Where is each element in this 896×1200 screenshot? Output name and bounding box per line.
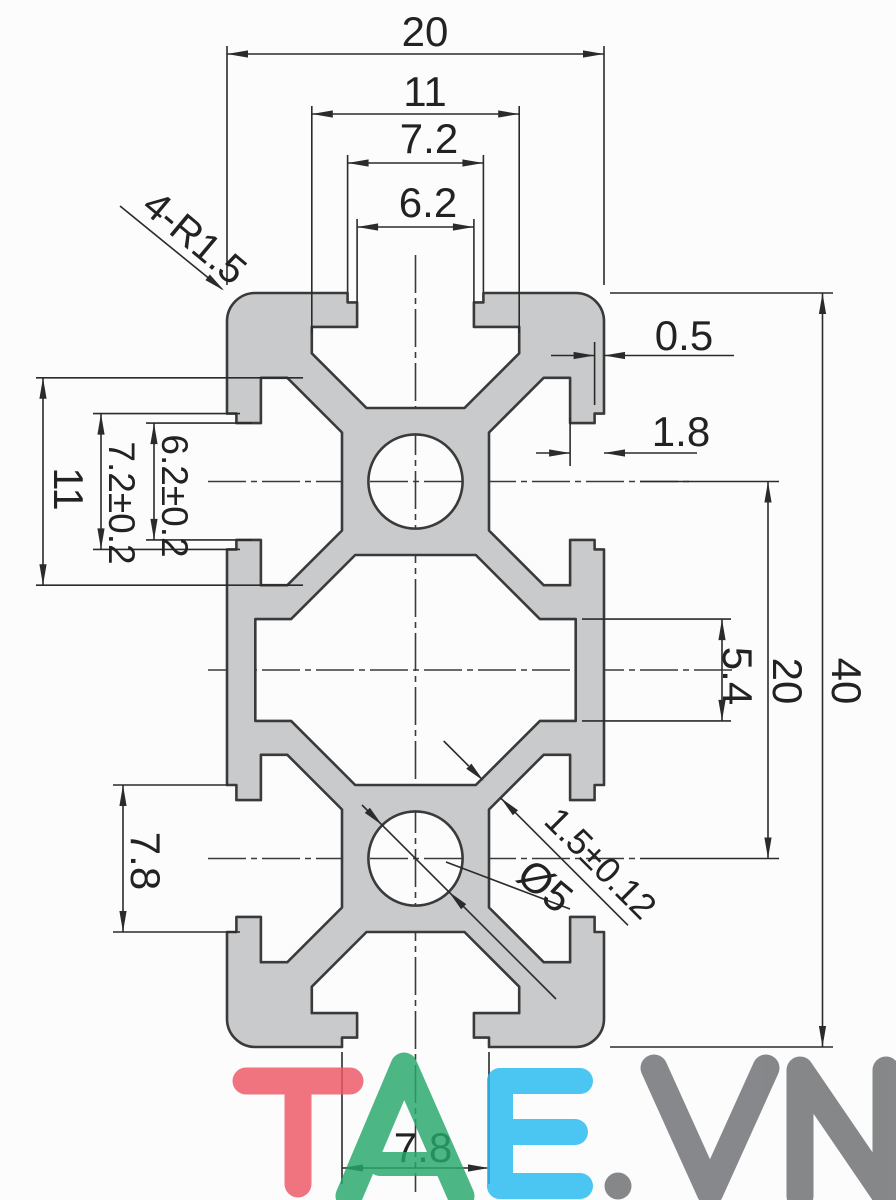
dim 40 extension lines	[610, 293, 833, 1047]
leader 1.5±0.12 web thickness	[444, 741, 628, 925]
leader Ø5 center hole	[362, 805, 570, 999]
dim 7.8 left extension lines	[113, 785, 240, 932]
dim label 7.8 bottom	[394, 1124, 452, 1171]
svg-text:1.8: 1.8	[652, 408, 710, 455]
dim label 7.2±0.2 left	[101, 441, 142, 564]
dim label 7.2 top	[400, 115, 458, 162]
dim 7.8 left dimension line	[119, 785, 126, 932]
dim label 40	[823, 658, 870, 705]
centerline bottom cell horizontal	[208, 858, 640, 860]
svg-text:7.2: 7.2	[400, 115, 458, 162]
dim label 1.5&#177;0.12	[537, 799, 665, 927]
svg-text:7.2±0.2: 7.2±0.2	[101, 441, 142, 564]
leader 4-R1.5 corner radius	[120, 206, 224, 291]
dim 7.2±0.2 left extension lines	[93, 414, 240, 550]
centerline middle horizontal	[208, 669, 733, 671]
dim 40 dimension line	[819, 293, 826, 1047]
dim label 5.4	[714, 647, 761, 705]
dim 7.2 top dimension line	[348, 159, 484, 166]
dim label Ø5	[509, 850, 582, 922]
dim 20 top extension lines	[227, 46, 604, 285]
dim 11 top extension lines	[312, 106, 519, 333]
dim 7.8 bottom dimension line	[342, 1164, 489, 1171]
dim 1.8 dimension line	[536, 449, 697, 456]
svg-text:0.5: 0.5	[655, 312, 713, 359]
dim 20 right dimension line	[764, 482, 771, 859]
dim label 6.2 top	[399, 179, 457, 226]
dim label 11 top	[403, 68, 447, 115]
dim 5.4 dimension line	[718, 619, 725, 721]
dim 7.8 bottom extension lines	[342, 1052, 489, 1184]
dim 11 left extension lines	[36, 378, 303, 585]
dim 5.4 extension lines	[582, 619, 731, 721]
dim label 4-R1.5	[134, 183, 254, 294]
dim label 7.8 left	[122, 832, 169, 890]
svg-text:6.2±0.2: 6.2±0.2	[154, 434, 195, 557]
dim label 1.8	[652, 408, 710, 455]
aluminium profile cross-section body	[227, 293, 604, 1047]
dim label 20 top	[402, 8, 449, 55]
centerline vertical profile axis	[415, 255, 417, 1192]
dim 20 top dimension line	[227, 50, 604, 57]
dim label 11 left	[45, 467, 92, 511]
dim 6.2±0.2 left dimension line	[150, 423, 157, 540]
svg-text:5.4: 5.4	[714, 647, 761, 705]
dim 1.8 extension line	[569, 418, 571, 466]
dim 6.2 top extension lines	[357, 219, 474, 303]
dim 6.2 top dimension line	[357, 223, 474, 230]
dim 11 left dimension line	[39, 378, 46, 585]
centerline top cell horizontal	[208, 481, 690, 483]
dim 11 top dimension line	[312, 110, 519, 117]
svg-text:11: 11	[403, 68, 447, 115]
svg-text:20: 20	[402, 8, 449, 55]
dim label 6.2±0.2 left	[154, 434, 195, 557]
dim label 0.5	[655, 312, 713, 359]
svg-text:11: 11	[45, 467, 92, 511]
svg-text:6.2: 6.2	[399, 179, 457, 226]
dim 7.2±0.2 left dimension line	[97, 414, 104, 550]
svg-text:40: 40	[823, 658, 870, 705]
watermark TAE.VN logo	[246, 1066, 886, 1200]
svg-text:4-R1.5: 4-R1.5	[134, 183, 254, 294]
dim 0.5 dimension line	[551, 352, 734, 359]
svg-text:20: 20	[764, 658, 811, 705]
dim 0.5 extension line	[594, 342, 596, 405]
dim 6.2±0.2 left extension lines	[146, 423, 252, 540]
svg-text:7.8: 7.8	[122, 832, 169, 890]
dim label 20 right	[764, 658, 811, 705]
dim 7.2 top extension lines	[348, 155, 484, 292]
dim 20 right extension lines	[640, 482, 779, 859]
